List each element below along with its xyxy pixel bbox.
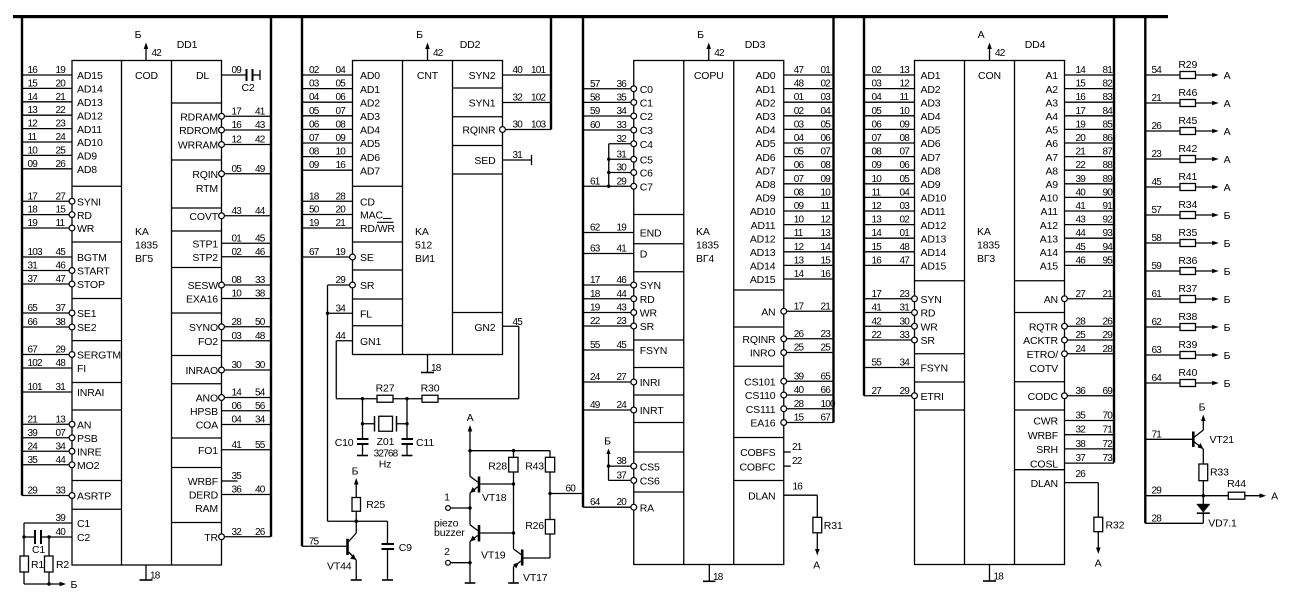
svg-text:08: 08 — [336, 119, 347, 130]
svg-text:28: 28 — [794, 399, 805, 410]
svg-text:AD11: AD11 — [77, 124, 102, 136]
svg-text:71: 71 — [1103, 425, 1114, 436]
svg-text:C6: C6 — [640, 168, 653, 180]
svg-text:02: 02 — [794, 106, 805, 117]
svg-text:29: 29 — [1152, 486, 1163, 497]
svg-text:40: 40 — [794, 385, 805, 396]
svg-text:36: 36 — [617, 79, 628, 90]
svg-text:11: 11 — [821, 201, 831, 212]
svg-text:03: 03 — [821, 92, 832, 103]
svg-text:04: 04 — [232, 415, 243, 426]
svg-text:AD7: AD7 — [921, 152, 941, 164]
svg-text:43: 43 — [1076, 215, 1087, 226]
svg-text:CS5: CS5 — [640, 461, 660, 473]
svg-text:12: 12 — [232, 135, 243, 146]
svg-text:A: A — [978, 29, 985, 41]
svg-text:37: 37 — [617, 470, 628, 481]
svg-text:R26: R26 — [525, 520, 544, 532]
svg-text:R42: R42 — [1178, 143, 1197, 155]
svg-text:A8: A8 — [1045, 165, 1058, 177]
svg-text:AD11: AD11 — [751, 220, 776, 232]
svg-text:24: 24 — [1076, 344, 1087, 355]
svg-text:22: 22 — [56, 105, 67, 116]
svg-text:20: 20 — [617, 497, 628, 508]
svg-text:AD13: AD13 — [750, 247, 776, 259]
svg-text:CON: CON — [978, 70, 1001, 82]
svg-text:STP2: STP2 — [192, 252, 218, 264]
svg-text:A: A — [1224, 98, 1231, 110]
svg-text:13: 13 — [28, 105, 39, 116]
svg-text:BGTM: BGTM — [77, 252, 107, 264]
svg-text:28: 28 — [232, 317, 243, 328]
svg-text:RQINR: RQINR — [742, 334, 776, 346]
svg-text:30: 30 — [617, 163, 628, 174]
svg-text:26: 26 — [1103, 316, 1114, 327]
svg-text:29: 29 — [900, 386, 911, 397]
svg-text:07: 07 — [821, 147, 832, 158]
svg-text:STOP: STOP — [77, 279, 105, 291]
svg-text:92: 92 — [1103, 215, 1114, 226]
svg-text:AD14: AD14 — [77, 84, 103, 96]
svg-text:ВГ5: ВГ5 — [135, 253, 153, 265]
svg-text:04: 04 — [872, 92, 883, 103]
svg-text:25: 25 — [794, 343, 805, 354]
svg-text:AD6: AD6 — [921, 138, 941, 150]
svg-text:FO2: FO2 — [198, 336, 218, 348]
svg-text:R37: R37 — [1178, 283, 1197, 295]
svg-text:23: 23 — [617, 316, 628, 327]
svg-text:02: 02 — [900, 215, 911, 226]
svg-text:07: 07 — [56, 428, 67, 439]
svg-text:05: 05 — [309, 106, 320, 117]
svg-text:WR: WR — [640, 308, 658, 320]
svg-text:58: 58 — [590, 92, 601, 103]
svg-text:C7: C7 — [640, 181, 653, 193]
svg-text:38: 38 — [1076, 439, 1087, 450]
svg-text:R25: R25 — [366, 499, 385, 511]
svg-text:A13: A13 — [1040, 233, 1059, 245]
svg-text:39: 39 — [794, 371, 805, 382]
svg-text:50: 50 — [309, 205, 320, 216]
svg-text:AD8: AD8 — [77, 164, 97, 176]
svg-text:15: 15 — [28, 78, 39, 89]
svg-text:WR: WR — [77, 223, 95, 235]
svg-text:INRI: INRI — [640, 377, 660, 389]
svg-text:12: 12 — [794, 242, 805, 253]
svg-text:A14: A14 — [1040, 247, 1059, 259]
svg-text:18: 18 — [994, 572, 1005, 583]
svg-text:ВГ4: ВГ4 — [696, 253, 714, 265]
svg-text:RD/WR: RD/WR — [360, 223, 395, 235]
svg-text:AD9: AD9 — [921, 179, 941, 191]
svg-text:A7: A7 — [1045, 152, 1058, 164]
svg-text:61: 61 — [1152, 289, 1163, 300]
svg-text:SYN2: SYN2 — [469, 70, 496, 82]
svg-text:A15: A15 — [1040, 261, 1059, 273]
svg-text:13: 13 — [56, 414, 67, 425]
svg-text:100: 100 — [821, 399, 837, 410]
svg-text:20: 20 — [56, 78, 67, 89]
svg-text:91: 91 — [1103, 201, 1114, 212]
svg-text:21: 21 — [1152, 93, 1163, 104]
svg-text:25: 25 — [821, 343, 832, 354]
svg-text:R38: R38 — [1178, 311, 1197, 323]
svg-text:Б: Б — [352, 465, 359, 477]
svg-text:AD0: AD0 — [360, 70, 380, 82]
svg-text:SYNO: SYNO — [189, 322, 218, 334]
svg-text:AN: AN — [77, 419, 91, 431]
svg-text:C4: C4 — [640, 139, 653, 151]
svg-text:WRBF: WRBF — [188, 476, 218, 488]
svg-text:AD6: AD6 — [360, 152, 380, 164]
svg-text:AD15: AD15 — [750, 274, 776, 286]
svg-text:TR: TR — [204, 532, 218, 544]
svg-text:ETRO/: ETRO/ — [1027, 349, 1059, 361]
svg-text:SYNI: SYNI — [77, 196, 101, 208]
svg-text:19: 19 — [617, 223, 628, 234]
svg-text:05: 05 — [794, 147, 805, 158]
svg-text:22: 22 — [792, 456, 803, 467]
svg-text:56: 56 — [255, 401, 266, 412]
svg-text:COVT: COVT — [189, 211, 218, 223]
svg-text:RAM: RAM — [195, 503, 218, 515]
svg-text:13: 13 — [821, 228, 832, 239]
svg-text:47: 47 — [794, 65, 805, 76]
svg-text:26: 26 — [1152, 121, 1163, 132]
svg-text:CS101: CS101 — [744, 376, 776, 388]
svg-text:SERGTM: SERGTM — [77, 350, 121, 362]
svg-text:03: 03 — [232, 331, 243, 342]
svg-text:Б: Б — [1199, 401, 1206, 413]
svg-text:12: 12 — [821, 215, 832, 226]
svg-text:FO1: FO1 — [198, 445, 218, 457]
svg-text:40: 40 — [1076, 187, 1087, 198]
svg-text:94: 94 — [1103, 242, 1114, 253]
svg-text:64: 64 — [1152, 373, 1163, 384]
svg-text:38: 38 — [617, 456, 628, 467]
svg-text:19: 19 — [28, 218, 39, 229]
svg-text:10: 10 — [28, 145, 39, 156]
svg-text:11: 11 — [872, 187, 882, 198]
svg-text:33: 33 — [255, 275, 266, 286]
svg-text:A3: A3 — [1045, 97, 1058, 109]
svg-text:SE1: SE1 — [77, 308, 97, 320]
svg-text:05: 05 — [872, 106, 883, 117]
svg-text:19: 19 — [336, 247, 347, 258]
svg-text:30: 30 — [255, 360, 266, 371]
svg-text:09: 09 — [794, 201, 805, 212]
svg-text:AD5: AD5 — [756, 138, 776, 150]
svg-text:C11: C11 — [416, 437, 434, 449]
svg-text:12: 12 — [28, 119, 39, 130]
svg-text:D: D — [640, 249, 648, 261]
svg-text:AN: AN — [1044, 294, 1058, 306]
svg-text:AD8: AD8 — [756, 179, 776, 191]
svg-text:10: 10 — [232, 289, 243, 300]
svg-text:ANO: ANO — [196, 393, 218, 405]
svg-text:END: END — [640, 228, 662, 240]
svg-text:02: 02 — [872, 65, 883, 76]
svg-text:66: 66 — [821, 385, 832, 396]
svg-text:09: 09 — [821, 174, 832, 185]
svg-text:09: 09 — [872, 160, 883, 171]
svg-text:36: 36 — [1076, 386, 1087, 397]
svg-text:R32: R32 — [1106, 519, 1125, 531]
svg-text:DD2: DD2 — [460, 39, 481, 51]
svg-text:46: 46 — [617, 275, 628, 286]
svg-text:RQIN: RQIN — [192, 169, 218, 181]
svg-text:01: 01 — [232, 233, 243, 244]
svg-text:21: 21 — [792, 442, 803, 453]
svg-text:RTM: RTM — [196, 183, 218, 195]
svg-text:A2: A2 — [1045, 84, 1058, 96]
svg-text:06: 06 — [309, 119, 320, 130]
svg-text:06: 06 — [821, 133, 832, 144]
svg-text:40: 40 — [255, 485, 266, 496]
svg-text:R46: R46 — [1178, 87, 1197, 99]
svg-text:89: 89 — [1103, 174, 1114, 185]
svg-text:01: 01 — [900, 228, 911, 239]
svg-text:CS6: CS6 — [640, 476, 660, 488]
svg-text:AD13: AD13 — [921, 233, 947, 245]
svg-text:16: 16 — [872, 255, 883, 266]
svg-text:A11: A11 — [1041, 206, 1059, 218]
svg-text:C9: C9 — [399, 542, 412, 554]
svg-text:61: 61 — [590, 176, 601, 187]
svg-text:COD: COD — [135, 70, 158, 82]
svg-text:AD7: AD7 — [360, 165, 380, 177]
svg-text:10: 10 — [900, 106, 911, 117]
svg-text:24: 24 — [617, 400, 628, 411]
svg-text:21: 21 — [336, 218, 347, 229]
svg-text:FL: FL — [360, 308, 372, 320]
svg-text:49: 49 — [255, 164, 266, 175]
svg-text:41: 41 — [1076, 201, 1087, 212]
svg-text:A4: A4 — [1045, 111, 1058, 123]
svg-text:PSB: PSB — [77, 433, 98, 445]
svg-text:18: 18 — [309, 191, 320, 202]
svg-text:06: 06 — [872, 119, 883, 130]
svg-text:42: 42 — [433, 48, 444, 59]
svg-text:R36: R36 — [1178, 255, 1197, 267]
svg-text:COTV: COTV — [1029, 363, 1058, 375]
svg-text:27: 27 — [617, 372, 628, 383]
svg-text:ASRTP: ASRTP — [77, 491, 111, 503]
svg-text:18: 18 — [431, 363, 442, 374]
svg-text:VT19: VT19 — [481, 550, 506, 562]
svg-text:512: 512 — [415, 240, 432, 252]
svg-text:27: 27 — [1076, 289, 1087, 300]
svg-text:19: 19 — [590, 303, 601, 314]
svg-text:13: 13 — [900, 65, 911, 76]
svg-text:41: 41 — [617, 244, 628, 255]
svg-text:42: 42 — [995, 48, 1006, 59]
svg-text:AD10: AD10 — [921, 193, 947, 205]
svg-text:02: 02 — [232, 247, 243, 258]
svg-text:54: 54 — [255, 388, 266, 399]
svg-text:82: 82 — [1103, 79, 1114, 90]
svg-text:17: 17 — [794, 301, 805, 312]
svg-text:29: 29 — [1103, 330, 1114, 341]
svg-text:C1: C1 — [32, 544, 45, 556]
svg-text:12: 12 — [872, 201, 883, 212]
svg-text:SYN: SYN — [921, 294, 942, 306]
svg-text:60: 60 — [590, 120, 601, 131]
svg-text:37: 37 — [28, 274, 39, 285]
svg-text:32: 32 — [513, 93, 524, 104]
svg-text:15: 15 — [872, 242, 883, 253]
svg-text:AD9: AD9 — [756, 193, 776, 205]
svg-text:AD2: AD2 — [756, 97, 776, 109]
svg-text:35: 35 — [617, 92, 628, 103]
svg-text:22: 22 — [872, 330, 883, 341]
svg-text:Б: Б — [1224, 266, 1231, 278]
svg-text:MAC: MAC — [360, 210, 383, 222]
svg-text:08: 08 — [900, 133, 911, 144]
svg-text:40: 40 — [513, 65, 524, 76]
svg-text:31: 31 — [617, 149, 628, 160]
svg-text:44: 44 — [56, 455, 67, 466]
svg-text:31: 31 — [900, 303, 911, 314]
svg-text:06: 06 — [900, 160, 911, 171]
svg-text:AD6: AD6 — [756, 152, 776, 164]
svg-text:14: 14 — [872, 228, 883, 239]
svg-text:FI: FI — [77, 363, 86, 375]
svg-text:16: 16 — [793, 482, 804, 493]
svg-text:64: 64 — [590, 497, 601, 508]
svg-text:101: 101 — [531, 65, 547, 76]
svg-text:08: 08 — [232, 275, 243, 286]
svg-text:AD0: AD0 — [756, 70, 776, 82]
svg-text:07: 07 — [872, 133, 883, 144]
svg-text:12: 12 — [900, 79, 911, 90]
svg-text:102: 102 — [28, 358, 44, 369]
svg-text:90: 90 — [1103, 187, 1114, 198]
svg-text:45: 45 — [255, 233, 266, 244]
svg-text:09: 09 — [309, 160, 320, 171]
svg-text:COBFC: COBFC — [739, 461, 776, 473]
svg-text:Hz: Hz — [379, 459, 392, 471]
svg-text:28: 28 — [336, 191, 347, 202]
svg-text:59: 59 — [1152, 261, 1163, 272]
svg-text:EXA16: EXA16 — [186, 294, 218, 306]
svg-text:14: 14 — [232, 388, 243, 399]
svg-text:R43: R43 — [525, 460, 544, 472]
svg-text:102: 102 — [531, 93, 547, 104]
svg-text:83: 83 — [1103, 92, 1114, 103]
svg-text:34: 34 — [617, 106, 628, 117]
svg-text:21: 21 — [28, 414, 39, 425]
svg-text:24: 24 — [56, 132, 67, 143]
svg-text:60: 60 — [566, 484, 577, 495]
svg-text:AD3: AD3 — [756, 111, 776, 123]
svg-text:A: A — [1095, 557, 1102, 569]
svg-text:C2: C2 — [640, 111, 653, 123]
svg-text:13: 13 — [872, 215, 883, 226]
svg-text:Б: Б — [1224, 294, 1231, 306]
svg-text:C2: C2 — [77, 532, 90, 544]
svg-text:05: 05 — [900, 174, 911, 185]
svg-text:R30: R30 — [421, 382, 440, 394]
svg-text:33: 33 — [900, 330, 911, 341]
svg-text:48: 48 — [794, 79, 805, 90]
svg-text:A1: A1 — [1045, 70, 1058, 82]
svg-text:A: A — [813, 559, 820, 571]
svg-text:COA: COA — [196, 420, 218, 432]
svg-text:04: 04 — [336, 65, 347, 76]
svg-text:WRRAM: WRRAM — [178, 140, 218, 152]
svg-text:AD4: AD4 — [921, 111, 941, 123]
svg-text:RA: RA — [640, 502, 654, 514]
svg-text:A5: A5 — [1045, 125, 1058, 137]
svg-text:A6: A6 — [1045, 138, 1058, 150]
svg-text:57: 57 — [590, 79, 601, 90]
svg-text:41: 41 — [232, 440, 243, 451]
svg-text:A9: A9 — [1045, 179, 1058, 191]
svg-text:21: 21 — [1076, 147, 1087, 158]
svg-text:21: 21 — [1103, 289, 1114, 300]
svg-text:A: A — [1224, 182, 1231, 194]
svg-text:2: 2 — [444, 546, 450, 558]
svg-text:37: 37 — [56, 303, 67, 314]
svg-text:SYN1: SYN1 — [469, 98, 496, 110]
svg-text:11: 11 — [794, 228, 804, 239]
svg-text:14: 14 — [821, 242, 832, 253]
svg-text:45: 45 — [1152, 177, 1163, 188]
svg-text:33: 33 — [56, 486, 67, 497]
svg-text:16: 16 — [232, 120, 243, 131]
svg-text:10: 10 — [821, 187, 832, 198]
svg-text:R2: R2 — [56, 559, 69, 571]
svg-text:RD: RD — [921, 308, 936, 320]
svg-text:04: 04 — [900, 187, 911, 198]
svg-text:R29: R29 — [1178, 59, 1197, 71]
svg-text:35: 35 — [28, 455, 39, 466]
svg-text:70: 70 — [1103, 411, 1114, 422]
svg-text:07: 07 — [900, 147, 911, 158]
svg-text:36: 36 — [232, 485, 243, 496]
svg-text:65: 65 — [28, 303, 39, 314]
svg-text:22: 22 — [590, 316, 601, 327]
svg-text:EA16: EA16 — [750, 418, 775, 430]
svg-text:18: 18 — [590, 289, 601, 300]
svg-text:C1: C1 — [77, 518, 90, 530]
svg-text:A: A — [1224, 126, 1231, 138]
svg-text:45: 45 — [56, 247, 67, 258]
svg-text:RQINR: RQINR — [462, 125, 496, 137]
svg-text:AD13: AD13 — [77, 97, 103, 109]
svg-text:DERD: DERD — [189, 490, 219, 502]
svg-text:14: 14 — [794, 269, 805, 280]
svg-text:47: 47 — [900, 255, 911, 266]
svg-text:66: 66 — [28, 317, 39, 328]
svg-text:38: 38 — [56, 317, 67, 328]
svg-text:R40: R40 — [1178, 367, 1197, 379]
svg-text:R45: R45 — [1178, 115, 1197, 127]
svg-text:03: 03 — [309, 79, 320, 90]
svg-text:46: 46 — [1076, 255, 1087, 266]
svg-text:02: 02 — [309, 65, 320, 76]
svg-text:35: 35 — [1076, 411, 1087, 422]
svg-text:37: 37 — [1076, 453, 1087, 464]
svg-text:05: 05 — [232, 164, 243, 175]
svg-text:Б: Б — [71, 579, 78, 591]
svg-text:17: 17 — [872, 289, 883, 300]
svg-text:41: 41 — [255, 106, 266, 117]
svg-text:81: 81 — [1103, 65, 1114, 76]
svg-text:SYN: SYN — [640, 280, 661, 292]
svg-text:AD1: AD1 — [756, 84, 776, 96]
